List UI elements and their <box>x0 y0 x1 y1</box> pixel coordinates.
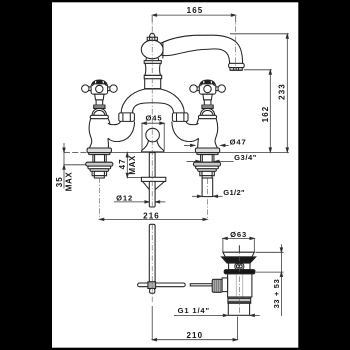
left inlet axis <box>98 178 100 220</box>
svg-text:35: 35 <box>55 176 64 187</box>
linkage strap <box>138 283 186 287</box>
label Ø12 (pop-up rod) <box>114 193 165 203</box>
right shank <box>201 155 214 163</box>
dim 233 (overall height) <box>230 34 289 153</box>
right inlet axis <box>206 179 208 220</box>
svg-text:Ø47: Ø47 <box>230 138 247 147</box>
right flange <box>195 148 219 153</box>
pop-up knob bell <box>142 140 164 152</box>
waste plug lip <box>223 252 254 257</box>
pop-up knob ball <box>146 128 160 142</box>
svg-text:G3/4": G3/4" <box>234 153 257 162</box>
svg-text:210: 210 <box>186 331 203 340</box>
dim 47 MAX (center, deck thickness) <box>118 153 141 178</box>
spout outlet axis <box>235 16 237 71</box>
left flange <box>87 148 111 153</box>
plug linkage detail <box>235 264 244 269</box>
dim 162 (spout outlet height) <box>244 70 272 153</box>
svg-text:Ø45: Ø45 <box>145 114 162 123</box>
horizontal ball rod <box>190 284 212 286</box>
left flange lip <box>89 153 110 155</box>
basin washer band <box>224 270 255 274</box>
svg-text:G1/2": G1/2" <box>223 188 245 197</box>
centre axes (dash-dot) <box>99 16 239 316</box>
right locknut ring <box>196 166 219 169</box>
left shank <box>93 155 106 163</box>
label G1/2" (inlet nipple) <box>192 188 245 197</box>
waste body <box>228 274 252 297</box>
column collar <box>144 61 161 64</box>
left hex nut <box>92 171 107 175</box>
column neck <box>146 58 159 61</box>
label G3/4" (shank thread) <box>187 153 257 162</box>
dim 210 (waste offset) <box>152 306 237 341</box>
strap clamp <box>148 282 156 289</box>
right locknut ring 2 <box>198 169 217 172</box>
deck mounting surface line <box>64 151 88 153</box>
svg-text:Ø63: Ø63 <box>230 230 247 239</box>
svg-text:233: 233 <box>278 83 287 100</box>
left tailpiece <box>94 176 104 178</box>
rod lower <box>149 224 155 282</box>
dim Ø63 (waste flange) <box>223 230 254 252</box>
svg-text:G1 1/4": G1 1/4" <box>178 306 210 315</box>
right G1/2 nipple <box>202 178 213 197</box>
waste mid band <box>229 263 250 270</box>
side boss <box>222 278 228 292</box>
aerator slotted band <box>230 68 242 71</box>
white drawing sheet <box>52 2 298 347</box>
rod tip <box>150 289 155 294</box>
spout <box>161 35 243 63</box>
right tailpiece <box>202 176 212 178</box>
rod joint plate <box>141 177 165 181</box>
bridge arch body <box>121 89 184 113</box>
column base section <box>145 79 161 89</box>
left union nut <box>119 113 135 122</box>
left washer <box>86 162 113 166</box>
spout joint flat <box>162 43 164 59</box>
label Ø47 (flange diameter) <box>184 138 247 147</box>
left valve body <box>89 119 110 148</box>
faucet axis <box>151 16 153 207</box>
left cross handle <box>82 80 118 119</box>
knurled adjuster <box>212 279 222 292</box>
rod middle <box>149 181 155 207</box>
waste seal band <box>222 257 256 263</box>
dim Ø45 (pop-up knob base) <box>142 114 164 151</box>
svg-text:MAX: MAX <box>128 155 137 175</box>
dim 165 (spout reach) <box>152 6 236 22</box>
svg-text:216: 216 <box>143 212 160 221</box>
right hex nut <box>200 171 215 175</box>
label G1 1/4" (waste thread) <box>174 306 260 316</box>
column ball <box>141 40 163 59</box>
column cylinder <box>145 63 161 75</box>
svg-text:165: 165 <box>187 6 204 15</box>
svg-text:162: 162 <box>261 106 270 123</box>
left locknut ring 2 <box>90 169 109 172</box>
pop-up rod upper <box>149 153 155 178</box>
column bottom collar <box>144 75 162 78</box>
right flange lip <box>197 153 218 155</box>
waste thread band <box>228 297 251 303</box>
right union nut <box>172 113 188 122</box>
right cross handle <box>190 80 226 119</box>
spout outlet collar ring <box>229 63 245 67</box>
left drop pipe to valve <box>108 122 135 142</box>
waste axis <box>238 246 240 317</box>
dim 35 MAX (left, deck thickness) <box>55 143 86 191</box>
rod joint funnel <box>143 181 150 189</box>
left locknut ring <box>88 166 111 169</box>
finial dome <box>150 33 155 37</box>
waste tailpipe <box>228 303 249 315</box>
dim 216 (inlet centres) <box>99 212 207 221</box>
waste centre mark <box>238 245 240 252</box>
svg-text:47: 47 <box>118 158 127 169</box>
right washer <box>193 162 220 166</box>
right valve body <box>197 119 218 148</box>
right drop pipe to valve <box>172 122 199 142</box>
dim 33+53 (waste clamping range) <box>256 244 284 316</box>
svg-text:Ø12: Ø12 <box>116 193 133 202</box>
finial collar <box>147 37 157 40</box>
svg-text:33 + 53: 33 + 53 <box>272 279 281 309</box>
svg-text:MAX: MAX <box>64 172 73 192</box>
